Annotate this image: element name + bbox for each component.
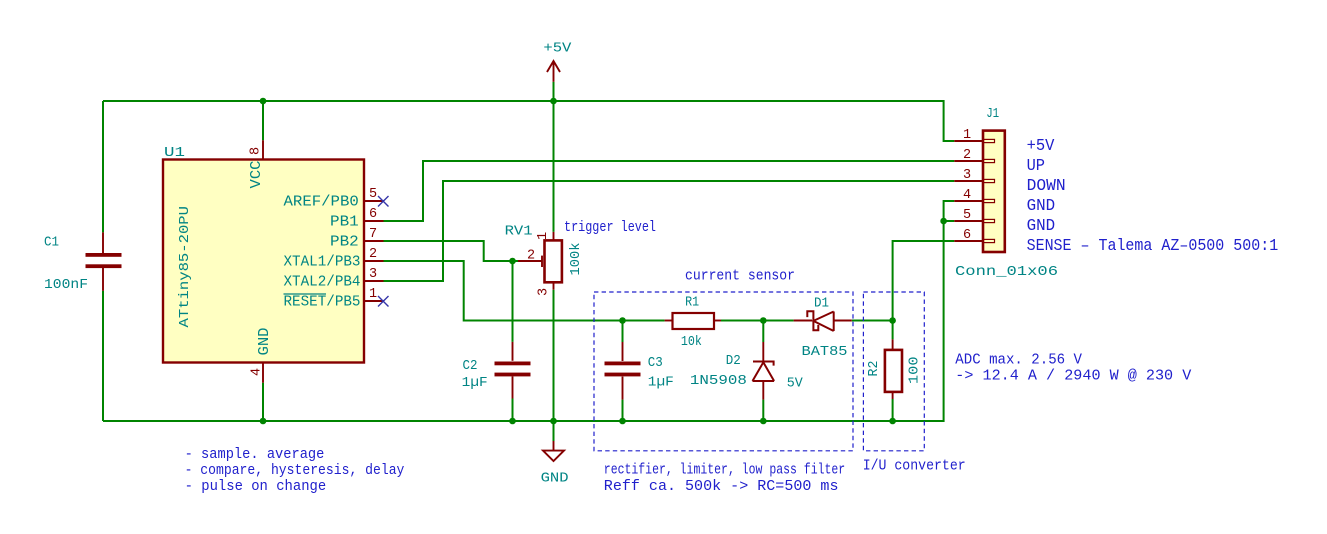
wire J1 pin5 stub <box>944 220 955 222</box>
svg-text:8: 8 <box>249 147 264 155</box>
svg-text:RV1: RV1 <box>505 224 533 240</box>
U1 pin 2 XTAL1/PB3 stub <box>364 260 384 262</box>
zener diode D2 <box>753 342 775 400</box>
dashed box I/U converter <box>863 292 924 451</box>
junction bottom rail R2 <box>889 418 896 425</box>
U1 pin 5 AREF/PB0 stub <box>364 200 384 202</box>
svg-text:D2: D2 <box>726 353 741 369</box>
junction top rail at +5V <box>550 98 557 105</box>
U1 pin 7 PB2 stub <box>364 240 384 242</box>
J1 pin 1 <box>954 139 994 142</box>
J1 pin 2 <box>954 159 994 162</box>
wire U1 VCC pin8 to top rail <box>262 101 264 140</box>
svg-text:100k: 100k <box>568 243 584 276</box>
wire C2 bottom to rail <box>512 399 514 422</box>
resistor R1 <box>665 313 721 329</box>
svg-text:XTAL2/PB4: XTAL2/PB4 <box>284 275 361 291</box>
RV1 wiper arrow pin 2 <box>518 256 542 267</box>
junction R2 top <box>889 317 896 324</box>
ground symbol GND <box>543 441 564 461</box>
junction bottom rail C3 <box>619 418 626 425</box>
svg-text:4: 4 <box>963 188 971 203</box>
svg-text:current sensor: current sensor <box>685 269 795 285</box>
svg-text:+5V: +5V <box>1027 137 1056 156</box>
wire D2 top stub <box>762 321 764 343</box>
svg-text:1: 1 <box>536 232 551 240</box>
wire R2 top stub <box>892 321 894 340</box>
svg-text:XTAL1/PB3: XTAL1/PB3 <box>284 255 361 271</box>
wire +5V top rail <box>103 101 954 141</box>
svg-text:C3: C3 <box>648 355 663 371</box>
svg-text:5: 5 <box>369 187 377 202</box>
IC U1 ATtiny85-20PU body <box>163 160 364 363</box>
wire R1 right to D2 node to D1 <box>721 320 794 322</box>
resistor R2 <box>885 339 902 399</box>
wire bottom GND rail <box>103 201 954 421</box>
svg-text:VCC: VCC <box>249 160 265 188</box>
svg-text:GND: GND <box>1027 217 1056 236</box>
svg-text:100nF: 100nF <box>44 277 88 293</box>
svg-text:3: 3 <box>369 267 377 282</box>
svg-text:rectifier, limiter, low pass f: rectifier, limiter, low pass filter <box>604 463 845 479</box>
svg-text:C2: C2 <box>463 358 478 374</box>
wire GND symbol stem <box>553 421 555 441</box>
wire left rail lower (C1 bottom) <box>102 291 104 421</box>
U1 pin 3 XTAL2/PB4 stub <box>364 280 384 282</box>
wire XTAL1/PB3 to sensor node <box>384 261 665 321</box>
RV1 pin 1 stub (top) <box>553 232 555 241</box>
RV1 pin 3 stub (bottom) <box>553 282 555 289</box>
svg-text:1: 1 <box>369 287 377 302</box>
wire U1 GND pin4 to bottom rail <box>262 383 264 421</box>
svg-text:GND: GND <box>257 328 273 356</box>
wire RV1 pin3 down to bottom rail <box>553 290 555 421</box>
junction bottom rail GND symbol <box>550 418 557 425</box>
J1 pin 6 <box>954 239 994 242</box>
J1 pin 5 <box>954 219 994 222</box>
wire C3 top stub <box>622 321 624 343</box>
capacitor C1 <box>86 232 122 290</box>
J1 pin 4 <box>954 199 994 202</box>
capacitor C2 <box>495 342 531 399</box>
svg-text:3: 3 <box>537 288 552 296</box>
svg-text:GND: GND <box>1027 197 1056 216</box>
svg-text:RESET/PB5: RESET/PB5 <box>284 295 361 311</box>
svg-text:ADC max. 2.56 V: ADC max. 2.56 V <box>955 353 1082 369</box>
power symbol +5V <box>547 61 560 82</box>
junction bottom rail D2 <box>760 418 767 425</box>
svg-text:BAT85: BAT85 <box>802 344 848 360</box>
svg-text:R2: R2 <box>866 361 882 377</box>
junction bottom rail U1 GND <box>260 418 267 425</box>
wire RV1 wiper node down to C2 <box>512 261 514 342</box>
U1 pin 1 RESET/PB5 stub <box>364 300 384 302</box>
svg-text:1µF: 1µF <box>462 375 488 391</box>
svg-text:C1: C1 <box>44 235 59 251</box>
svg-text:3: 3 <box>963 168 971 183</box>
connector J1 body <box>983 131 1005 252</box>
svg-text:D1: D1 <box>814 295 829 311</box>
junction C3 top <box>619 317 626 324</box>
svg-text:I/U converter: I/U converter <box>863 458 966 474</box>
capacitor C3 <box>605 342 641 400</box>
svg-text:1µF: 1µF <box>648 375 674 391</box>
junction D2 top <box>760 317 767 324</box>
wire PB2 to RV1 wiper <box>384 241 519 261</box>
svg-text:5V: 5V <box>787 376 804 392</box>
dashed box current sensor <box>594 292 853 451</box>
svg-text:UP: UP <box>1027 157 1045 176</box>
U1 pin 8 VCC stub <box>262 140 264 159</box>
svg-text:GND: GND <box>541 471 569 487</box>
svg-text:6: 6 <box>963 228 971 243</box>
junction J1 pin4/5 <box>940 218 947 225</box>
svg-text:- pulse on change: - pulse on change <box>185 479 327 495</box>
svg-text:100: 100 <box>907 357 923 385</box>
svg-text:7: 7 <box>369 227 377 242</box>
svg-text:-> 12.4 A / 2940 W @ 230 V: -> 12.4 A / 2940 W @ 230 V <box>955 368 1191 384</box>
svg-text:U1: U1 <box>164 145 185 161</box>
svg-text:PB1: PB1 <box>330 215 359 231</box>
svg-text:Conn_01x06: Conn_01x06 <box>955 264 1058 280</box>
wire PB1 to J1 pin2 (UP) <box>384 161 955 221</box>
svg-text:Reff ca. 500k -> RC=500 ms: Reff ca. 500k -> RC=500 ms <box>604 479 839 495</box>
svg-text:+5V: +5V <box>543 41 572 57</box>
svg-text:- compare, hysteresis, delay: - compare, hysteresis, delay <box>185 463 405 479</box>
svg-text:6: 6 <box>369 207 377 222</box>
no-connect X on pin 1 <box>378 296 389 307</box>
svg-text:AREF/PB0: AREF/PB0 <box>284 195 359 211</box>
svg-text:SENSE – Talema AZ–0500 500:1: SENSE – Talema AZ–0500 500:1 <box>1027 237 1279 256</box>
svg-text:ATtiny85-20PU: ATtiny85-20PU <box>177 206 193 328</box>
junction RV1 wiper node <box>509 258 516 265</box>
svg-text:2: 2 <box>527 249 535 264</box>
svg-text:J1: J1 <box>986 106 999 122</box>
svg-text:- sample. average: - sample. average <box>185 447 325 463</box>
potentiometer RV1 body <box>545 240 562 282</box>
svg-text:5: 5 <box>963 208 971 223</box>
J1 pin 3 <box>954 179 994 182</box>
wire J1 pin6 SENSE to R2 top <box>893 241 955 321</box>
schottky diode D1 <box>794 311 852 331</box>
wire +5V symbol stem <box>553 82 555 232</box>
svg-text:PB2: PB2 <box>330 235 359 251</box>
wire C3 bottom stub <box>622 400 624 421</box>
svg-text:1N5908: 1N5908 <box>690 373 747 389</box>
junction bottom rail C2 <box>509 418 516 425</box>
U1 pin 6 PB1 stub <box>364 220 384 222</box>
wire D2 bottom stub <box>762 400 764 421</box>
svg-text:2: 2 <box>369 247 377 262</box>
svg-text:10k: 10k <box>681 334 702 350</box>
wire R2 bottom stub <box>892 399 894 421</box>
U1 pin 4 GND stub <box>262 363 264 383</box>
svg-text:trigger level: trigger level <box>564 220 656 236</box>
wire XTAL2/PB4 to J1 pin3 (DOWN) <box>384 181 955 281</box>
wire left rail upper (C1 top) <box>102 101 104 232</box>
svg-text:DOWN: DOWN <box>1027 177 1066 196</box>
svg-text:4: 4 <box>250 368 265 376</box>
no-connect X on pin 5 <box>378 196 389 207</box>
wire D1 to R2 top node <box>852 320 893 322</box>
svg-text:1: 1 <box>963 128 971 143</box>
overline on RESET <box>284 293 327 295</box>
svg-text:2: 2 <box>963 148 971 163</box>
junction top rail at U1 VCC <box>260 98 267 105</box>
svg-text:R1: R1 <box>685 294 699 310</box>
